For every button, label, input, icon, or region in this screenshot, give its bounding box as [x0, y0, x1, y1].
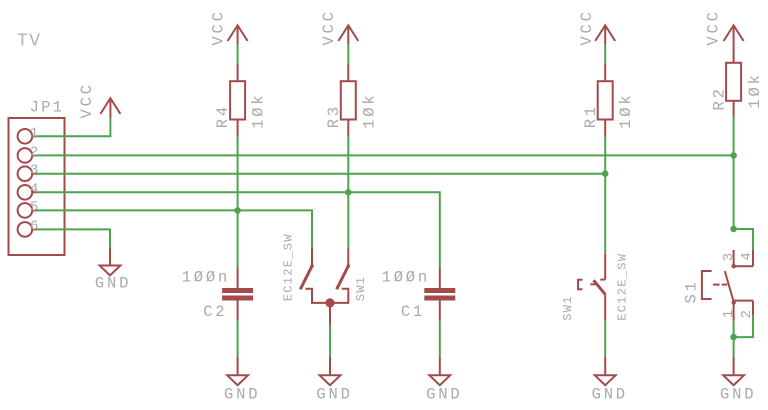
junction node pin4/R3 — [345, 189, 352, 196]
ground GND at C1 — [426, 357, 462, 403]
wire S1 to GND — [733, 337, 735, 357]
svg-text:2: 2 — [739, 310, 755, 318]
wire R1 to SW1 push switch — [604, 137, 606, 254]
svg-text:1Øk: 1Øk — [617, 92, 635, 128]
supply VCC at R3 — [320, 9, 358, 45]
supply VCC at R2 — [705, 9, 744, 45]
rotary encoder SW1 (EC12E_SW) channels A/B — [282, 233, 369, 325]
svg-text:R1: R1 — [582, 104, 600, 128]
svg-text:3: 3 — [721, 253, 737, 261]
wire C2 to GND — [237, 321, 239, 357]
wire VCC to R4 — [237, 44, 239, 64]
svg-text:VCC: VCC — [578, 9, 596, 45]
ground GND at SW1 common — [316, 357, 352, 403]
svg-text:C2: C2 — [203, 303, 227, 321]
svg-text:1Øk: 1Øk — [360, 92, 378, 128]
wire R3 to SW1 right contact — [347, 137, 349, 249]
svg-text:VCC: VCC — [705, 9, 723, 45]
svg-text:R3: R3 — [325, 104, 343, 128]
ground GND at SW1 push — [592, 357, 628, 403]
svg-text:5: 5 — [30, 199, 38, 215]
svg-text:GND: GND — [592, 385, 628, 403]
svg-text:1ØØn: 1ØØn — [382, 268, 430, 286]
wire S1 bottom loop — [734, 315, 753, 337]
svg-text:EC12E_SW: EC12E_SW — [615, 253, 629, 321]
resistor R1 10k — [582, 64, 635, 137]
svg-text:SW1: SW1 — [354, 276, 368, 302]
tact switch S1 — [683, 250, 756, 320]
junction node pin3/R1 — [602, 170, 609, 177]
svg-text:2: 2 — [30, 144, 38, 160]
wire R2 to S1 — [733, 117, 735, 229]
wire S1 top loop — [734, 229, 753, 250]
resistor R4 10k — [214, 64, 267, 137]
svg-text:4: 4 — [30, 181, 38, 197]
svg-text:GND: GND — [426, 385, 462, 403]
connector JP1 — [9, 99, 65, 256]
svg-text:GND: GND — [316, 385, 352, 403]
svg-text:1: 1 — [30, 125, 38, 141]
svg-text:6: 6 — [30, 218, 38, 234]
svg-text:R2: R2 — [710, 86, 728, 110]
wire pin2 net — [37, 154, 734, 156]
svg-text:3: 3 — [30, 163, 38, 179]
supply VCC at R4 — [210, 9, 248, 45]
capacitor C1 100n — [382, 267, 456, 321]
svg-text:TV: TV — [17, 31, 42, 51]
ground GND at C2 — [224, 357, 260, 403]
junction node S1 pins 3/4 — [730, 226, 737, 233]
wire pin6 to GND — [37, 229, 111, 247]
junction node pin5/R4/C2 — [234, 207, 241, 214]
svg-text:JP1: JP1 — [30, 99, 65, 117]
ground GND at S1 — [720, 357, 756, 403]
resistor R3 10k — [325, 64, 378, 137]
wire pin5 net — [37, 210, 313, 248]
resistor R2 10k — [710, 44, 763, 117]
svg-text:GND: GND — [95, 274, 131, 292]
svg-text:VCC: VCC — [210, 9, 228, 45]
push switch SW1 (EC12E_SW) — [561, 253, 630, 321]
wire C1 to GND — [439, 321, 441, 357]
wire pin3 net — [37, 173, 606, 175]
svg-text:EC12E_SW: EC12E_SW — [282, 233, 296, 301]
svg-text:R4: R4 — [214, 104, 232, 128]
wire SW1 common to GND — [329, 325, 331, 357]
wire VCC to R1 — [604, 44, 606, 64]
svg-text:4: 4 — [739, 252, 755, 260]
svg-text:1Øk: 1Øk — [746, 72, 764, 108]
wire SW1 push to GND — [604, 320, 606, 357]
svg-text:C1: C1 — [401, 303, 425, 321]
junction node pin2/R2 — [730, 152, 737, 159]
wire pin1 to VCC — [37, 118, 111, 137]
ground GND at JP1 — [95, 248, 131, 293]
svg-text:1ØØn: 1ØØn — [182, 268, 230, 286]
junction node S1 pins 1/2 — [730, 334, 737, 341]
svg-text:1Øk: 1Øk — [250, 92, 268, 128]
svg-text:VCC: VCC — [320, 9, 338, 45]
svg-text:VCC: VCC — [78, 82, 96, 118]
svg-text:GND: GND — [720, 385, 756, 403]
svg-text:GND: GND — [224, 385, 260, 403]
svg-text:SW1: SW1 — [561, 295, 575, 321]
supply VCC at JP1 — [78, 82, 121, 118]
capacitor C2 100n — [182, 268, 253, 322]
svg-text:S1: S1 — [683, 279, 701, 303]
wire pin4 net — [37, 192, 440, 267]
supply VCC at R1 — [578, 9, 615, 45]
wire R4 to C2 column — [237, 137, 239, 268]
wire VCC to R3 — [347, 44, 349, 64]
svg-text:1: 1 — [721, 310, 737, 318]
